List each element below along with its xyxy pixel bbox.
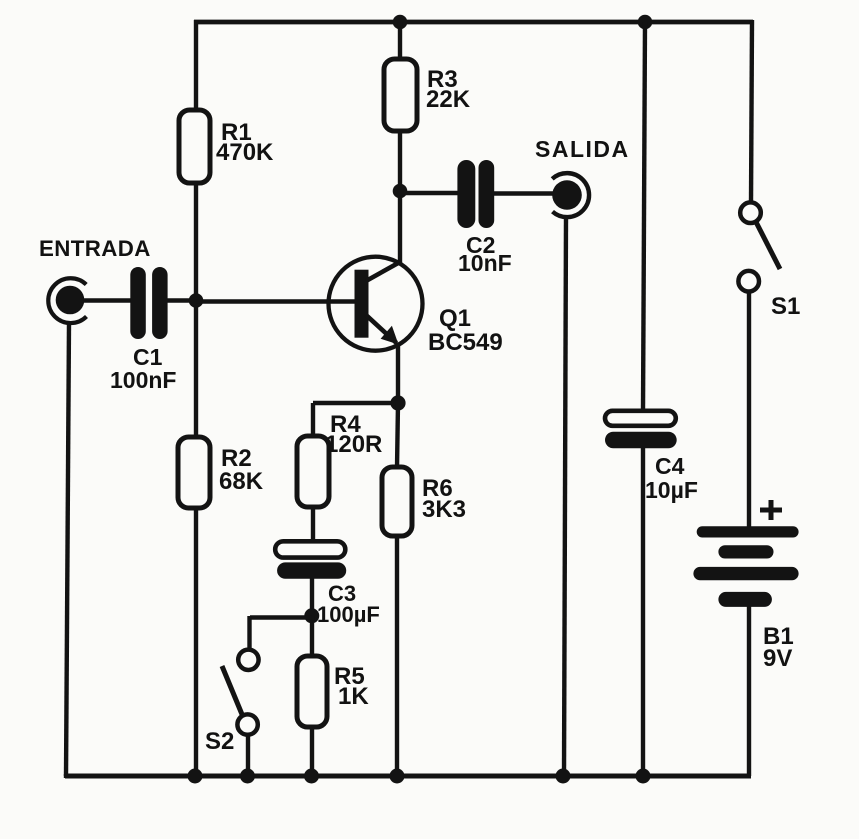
svg-text:100nF: 100nF <box>110 367 176 393</box>
wire ENTRADA shield to bottom rail <box>66 322 69 776</box>
wire C2 right lead to SALIDA jack <box>494 191 553 195</box>
resistor R2 <box>178 437 210 508</box>
wire top rail right corner to S1 <box>751 20 752 203</box>
wire collector node down to Q1 collector <box>398 191 402 264</box>
wire left rail R1 to input junction <box>194 183 198 302</box>
wire left rail top segment <box>194 20 198 111</box>
svg-text:SALIDA: SALIDA <box>535 136 630 162</box>
node bottom rail SALIDA shield <box>556 769 571 784</box>
wire C2 left lead <box>400 191 458 195</box>
svg-text:9V: 9V <box>763 645 792 672</box>
wire R3 to collector node <box>398 130 402 192</box>
svg-text:470K: 470K <box>216 139 274 166</box>
svg-text:C4: C4 <box>655 453 685 479</box>
wire S2 to bottom rail <box>246 734 250 776</box>
capacitor C1 <box>130 267 167 339</box>
wire R6 to bottom rail <box>395 536 399 776</box>
wire C4 top lead <box>643 22 645 411</box>
svg-text:BC549: BC549 <box>428 329 503 356</box>
node emitter junction <box>390 395 405 410</box>
wire SALIDA jack to bottom rail <box>564 216 566 776</box>
node bottom rail R6 <box>390 769 405 784</box>
wire S1 to battery <box>747 292 751 528</box>
capacitor C2 <box>457 160 494 228</box>
node bottom rail R5 <box>304 769 319 784</box>
wire bottom ground rail <box>65 774 751 779</box>
node bottom rail left rail <box>188 769 203 784</box>
wire C4 to bottom rail <box>641 448 645 776</box>
wire Q1 emitter to emitter node <box>396 343 400 404</box>
wire C1 to base junction <box>167 298 196 302</box>
svg-text:3K3: 3K3 <box>422 496 466 523</box>
wire emitter node to R4 branch <box>313 401 398 405</box>
svg-text:Q1: Q1 <box>439 305 471 332</box>
wire S2 branch vertical <box>247 616 251 650</box>
svg-text:68K: 68K <box>219 468 264 495</box>
label battery plus <box>760 500 782 520</box>
node top rail / R3 <box>393 15 408 30</box>
wire C3 to S2 node <box>310 578 314 617</box>
wire top rail to R3 <box>398 22 402 60</box>
resistor R1 <box>179 110 210 183</box>
resistor R6 <box>382 467 412 536</box>
svg-text:100µF: 100µF <box>317 602 380 627</box>
wire input shield bottom corner <box>64 774 68 778</box>
svg-text:S1: S1 <box>771 293 800 320</box>
svg-text:ENTRADA: ENTRADA <box>39 236 151 261</box>
resistor R5 <box>297 656 327 727</box>
switch S2 <box>222 650 259 735</box>
node bottom rail C4 <box>636 769 651 784</box>
wire node to R5 <box>310 616 314 657</box>
wire R4 to C3 <box>311 507 315 542</box>
wire R5 to bottom rail <box>310 727 314 776</box>
wire top supply rail <box>194 20 753 25</box>
wire emitter node to R6 <box>397 403 398 468</box>
svg-text:10µF: 10µF <box>645 477 698 503</box>
svg-text:S2: S2 <box>205 728 234 755</box>
wire left rail R2 to bottom rail <box>194 507 198 776</box>
wire R4 top lead <box>311 403 315 437</box>
resistor R3 <box>384 59 417 131</box>
switch S1 <box>738 202 780 291</box>
svg-text:1K: 1K <box>338 683 369 710</box>
svg-text:120R: 120R <box>325 431 382 458</box>
connector SALIDA output jack <box>552 173 589 217</box>
wire base junction to Q1 base <box>196 299 355 303</box>
wire S2 branch horizontal <box>250 615 312 619</box>
resistor R4 <box>297 436 329 507</box>
node S2 / R5 junction <box>304 608 319 623</box>
transistor Q1 <box>329 257 423 351</box>
connector ENTRADA input jack <box>48 278 86 323</box>
wire battery to bottom rail corner <box>747 606 751 776</box>
svg-text:10nF: 10nF <box>458 250 512 276</box>
node bottom rail S2 <box>240 769 255 784</box>
node input junction <box>189 293 204 308</box>
wire ENTRADA jack to C1 <box>84 298 131 302</box>
svg-text:22K: 22K <box>426 86 471 113</box>
capacitor C3 electrolytic <box>275 541 346 579</box>
battery B1 <box>693 526 798 607</box>
node collector / C2 junction <box>393 184 408 199</box>
node top rail / C4 <box>638 15 653 30</box>
capacitor C4 electrolytic <box>605 411 677 449</box>
wire left rail junction to R2 <box>194 300 198 438</box>
